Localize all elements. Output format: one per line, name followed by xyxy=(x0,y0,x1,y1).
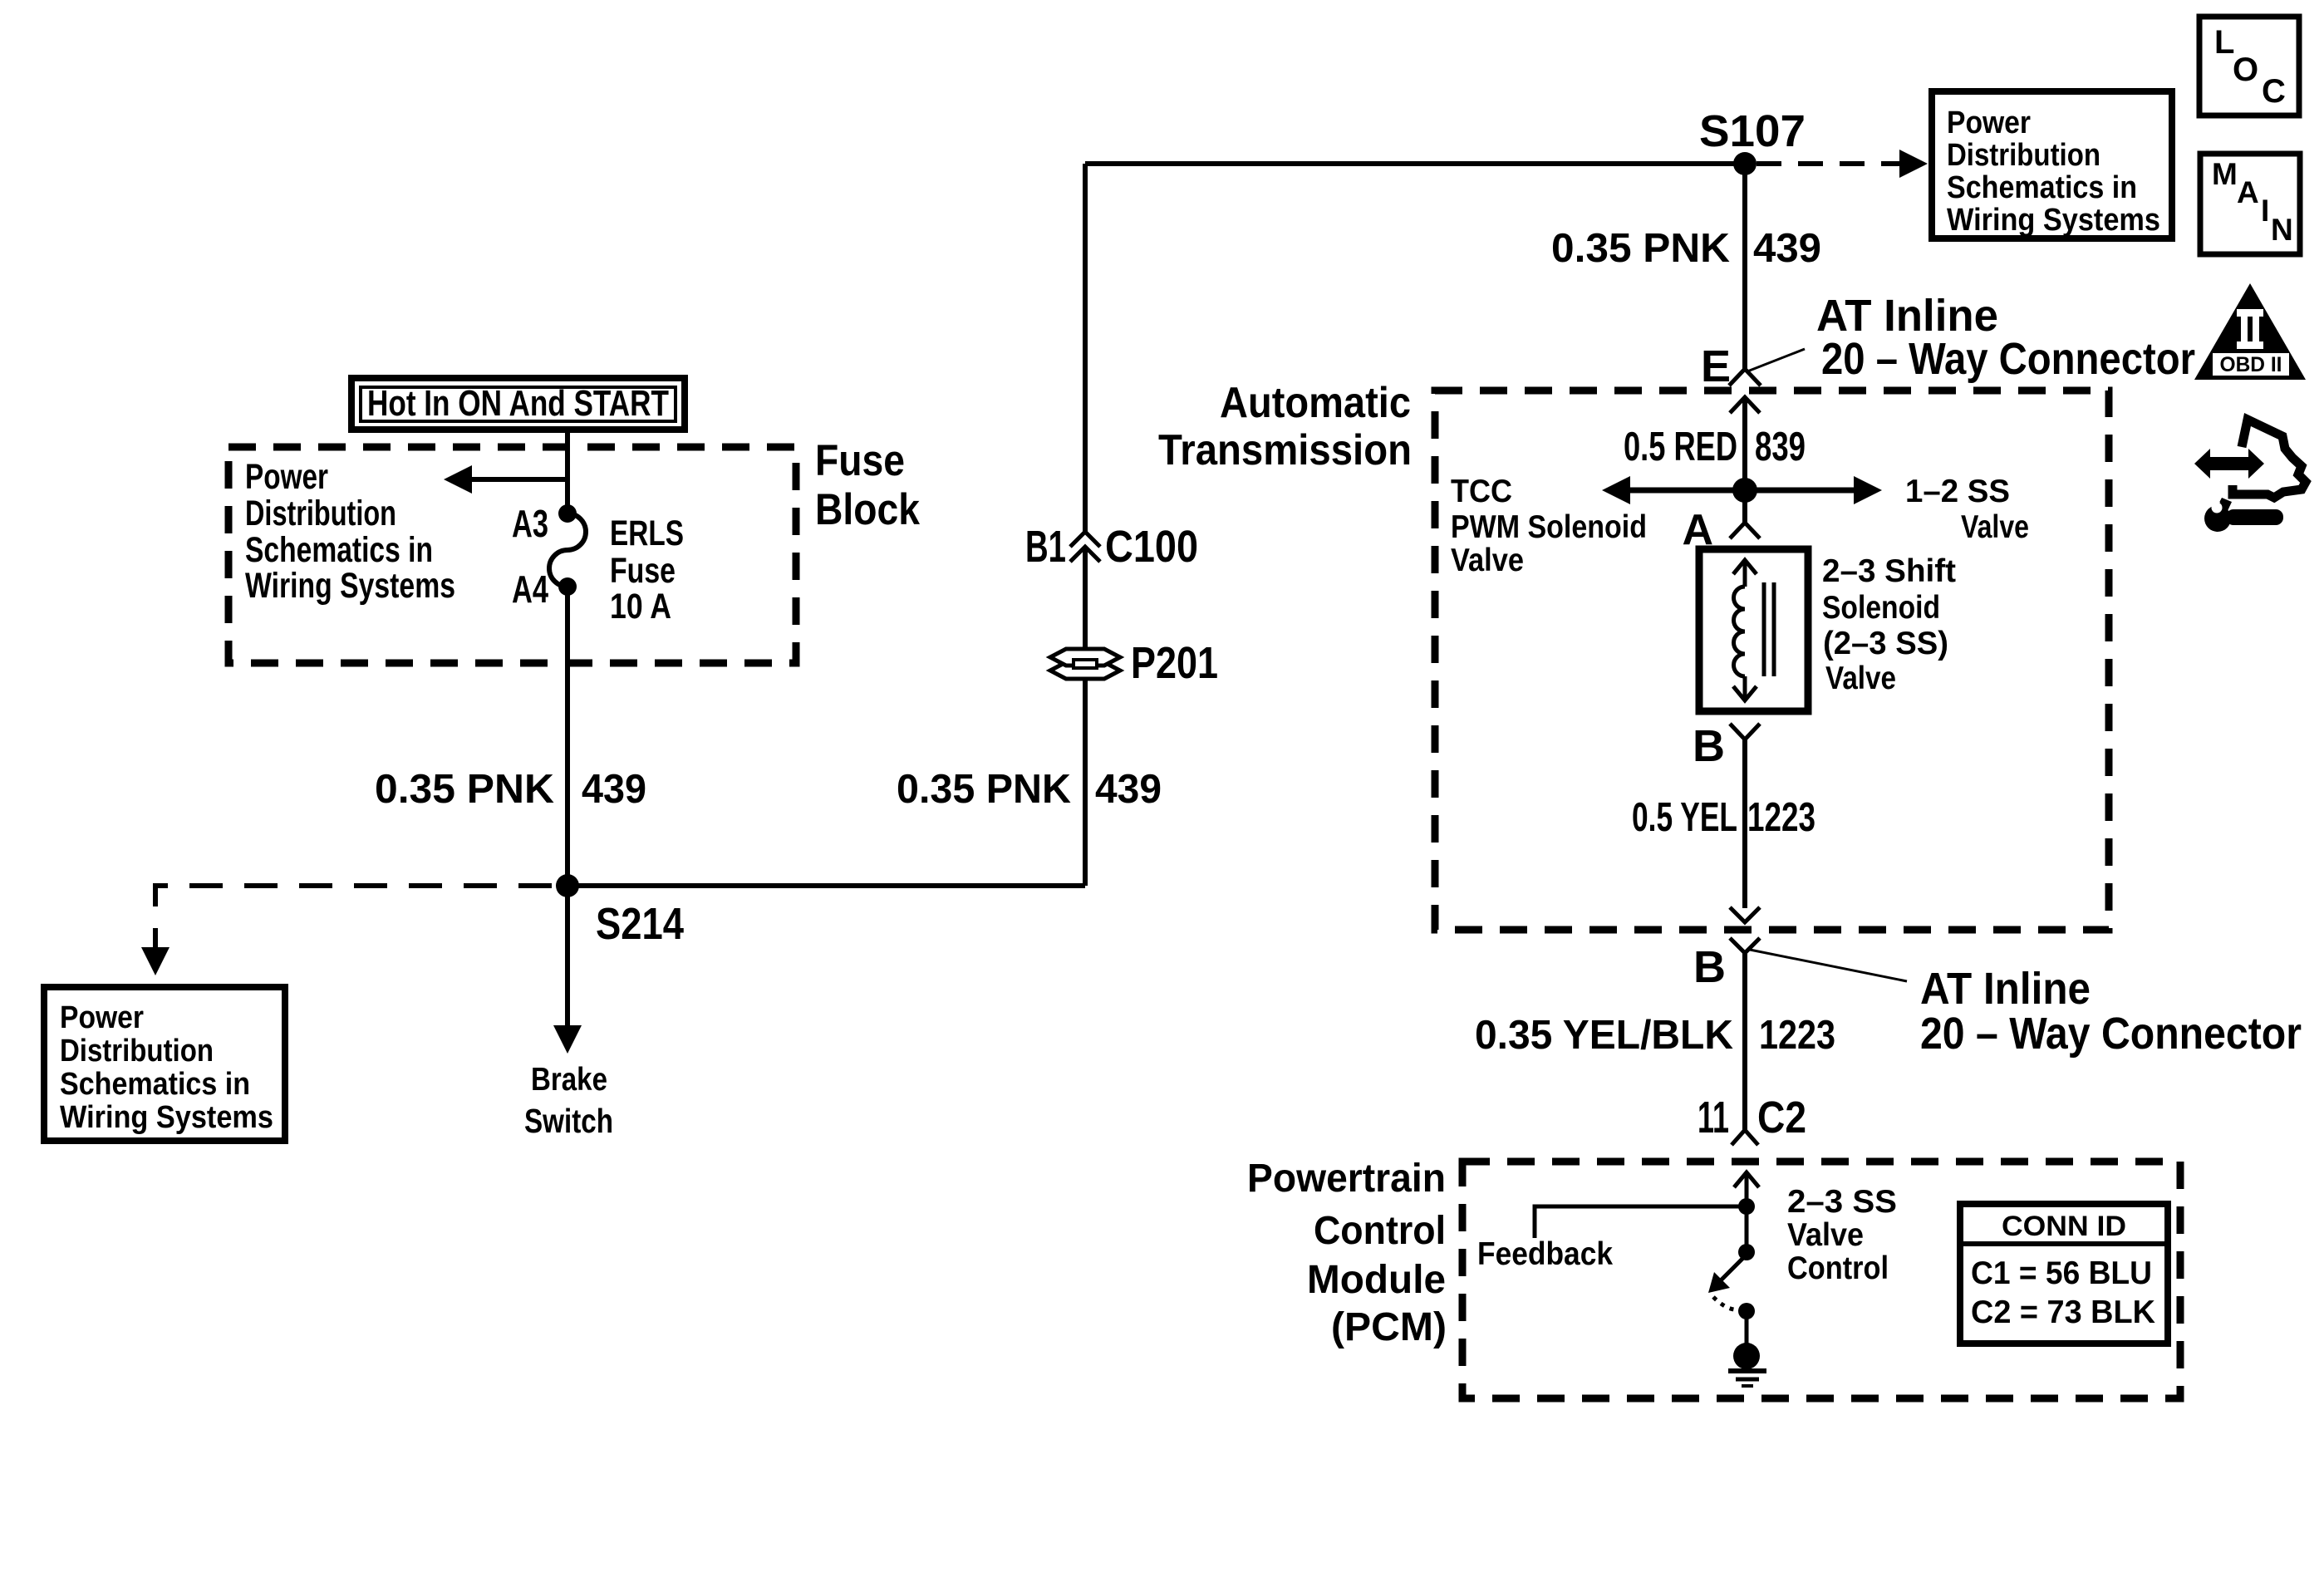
label: 1-2 SS Valve xyxy=(1905,474,2029,545)
svg-text:C2: C2 xyxy=(1757,1093,1806,1142)
svg-text:P201: P201 xyxy=(1131,638,1218,688)
wire: middle riser lower segment xyxy=(1083,547,1088,886)
svg-text:CONN ID: CONN ID xyxy=(2002,1211,2126,1242)
reference box: Power Distribution Schematics in Wiring Systems (top right) xyxy=(1932,91,2172,238)
svg-text:E: E xyxy=(1701,341,1731,391)
svg-text:Wiring Systems: Wiring Systems xyxy=(60,1100,273,1135)
label: AT Inline 20-Way Connector (top) xyxy=(1816,291,2195,384)
arrowhead down to reference box xyxy=(141,947,170,975)
connector pin B below solenoid xyxy=(1693,721,1760,771)
ground (PCM internal) xyxy=(1728,1343,1766,1386)
svg-text:Wiring Systems: Wiring Systems xyxy=(1947,203,2160,238)
wire: node down to pin A xyxy=(1742,490,1747,523)
svg-text:C1 = 56 BLU: C1 = 56 BLU xyxy=(1971,1255,2152,1291)
svg-text:Schematics in: Schematics in xyxy=(60,1067,250,1102)
wire: connector B down to PCM pin 11 xyxy=(1742,953,1747,1130)
svg-text:Solenoid: Solenoid xyxy=(1822,590,1940,626)
svg-text:Control: Control xyxy=(1787,1250,1889,1286)
svg-text:A: A xyxy=(2237,175,2259,209)
svg-text:Block: Block xyxy=(815,485,920,534)
svg-text:B: B xyxy=(1693,721,1725,771)
svg-text:Hot In ON And START: Hot In ON And START xyxy=(367,383,669,424)
label: 2-3 Shift Solenoid (2-3 SS) Valve xyxy=(1822,553,1956,696)
svg-text:ERLS: ERLS xyxy=(610,513,684,553)
wire label 0.35 PNK 439 (middle) xyxy=(897,767,1162,812)
arrowhead right xyxy=(1899,150,1928,178)
svg-text:(2–3 SS): (2–3 SS) xyxy=(1823,626,1948,661)
svg-text:20 – Way Connector: 20 – Way Connector xyxy=(1920,1009,2302,1059)
svg-text:OBD II: OBD II xyxy=(2220,353,2282,376)
branch arrows to TCC PWM solenoid valve and 1-2 SS valve xyxy=(1602,476,1882,504)
svg-text:Powertrain: Powertrain xyxy=(1247,1157,1446,1201)
svg-text:1223: 1223 xyxy=(1759,1013,1835,1058)
svg-text:PWM Solenoid: PWM Solenoid xyxy=(1451,509,1647,545)
svg-text:439: 439 xyxy=(1095,767,1162,812)
label: Automatic Transmission xyxy=(1158,379,1412,474)
wire: S107 down to connector E xyxy=(1742,164,1747,369)
switch blade arrow xyxy=(1708,1255,1747,1293)
dashed wire: S107 to power distribution reference (top right) xyxy=(1757,161,1901,166)
wire: solenoid B down to transmission case exit xyxy=(1742,739,1747,908)
inline connector C100 pin B1 xyxy=(1025,522,1198,572)
wire label 0.5 YEL 1223 xyxy=(1632,795,1815,840)
svg-text:A4: A4 xyxy=(512,567,548,611)
fuse ERLS 10 A element xyxy=(549,513,586,587)
svg-text:I: I xyxy=(2261,194,2269,228)
svg-text:Valve: Valve xyxy=(1825,661,1896,696)
svg-text:Wiring Systems: Wiring Systems xyxy=(245,566,455,606)
svg-text:Power: Power xyxy=(60,1000,144,1035)
connector pin E male arrow into transmission xyxy=(1730,397,1760,490)
svg-text:Valve: Valve xyxy=(1451,543,1524,578)
dashed wire: S214 to power distribution reference (left) xyxy=(155,886,552,947)
svg-text:839: 839 xyxy=(1755,425,1806,469)
label: 2-3 SS Valve Control xyxy=(1787,1184,1897,1286)
svg-text:A3: A3 xyxy=(512,502,548,545)
svg-text:10 A: 10 A xyxy=(610,587,671,626)
svg-text:11: 11 xyxy=(1698,1093,1729,1142)
svg-text:Feedback: Feedback xyxy=(1477,1236,1613,1272)
callout line to AT Inline label xyxy=(1747,349,1805,371)
wire: S214 down to brake switch (arrow) xyxy=(553,886,582,1054)
svg-text:C100: C100 xyxy=(1105,522,1198,572)
fuse block dashed box xyxy=(228,447,796,663)
svg-text:(PCM): (PCM) xyxy=(1331,1305,1447,1349)
node: valve control line xyxy=(1738,1198,1755,1215)
svg-text:439: 439 xyxy=(1753,226,1821,271)
fuse terminal A3 xyxy=(512,502,577,545)
CONN ID table xyxy=(1960,1204,2168,1344)
svg-text:S107: S107 xyxy=(1699,106,1806,156)
connector E (female half, AT inline 20-way) xyxy=(1701,341,1761,391)
solenoid coil symbol xyxy=(1733,560,1774,700)
svg-text:0.5 RED: 0.5 RED xyxy=(1624,425,1737,469)
wire: hot feed down into fuse block xyxy=(565,430,570,513)
service manual icon (arrows, outline, wrench) xyxy=(2194,420,2306,532)
svg-text:2–3 Shift: 2–3 Shift xyxy=(1822,553,1956,589)
connector pin 11 C2 xyxy=(1698,1093,1806,1145)
svg-text:N: N xyxy=(2271,213,2293,247)
label: Powertrain Control Module (PCM) xyxy=(1247,1157,1447,1349)
splice S214 xyxy=(556,874,684,949)
wire label 0.35 PNK 439 (left) xyxy=(375,767,646,812)
svg-text:Distribution: Distribution xyxy=(1947,138,2100,173)
switch upper contact xyxy=(1738,1206,1755,1260)
svg-text:L: L xyxy=(2214,24,2234,61)
wire label 0.35 YEL/BLK 1223 xyxy=(1475,1013,1835,1058)
svg-text:Power: Power xyxy=(1947,106,2031,140)
callout line to AT Inline label (bottom) xyxy=(1750,950,1907,981)
power feed label box "Hot In ON And START" xyxy=(351,378,685,430)
svg-text:0.35 PNK: 0.35 PNK xyxy=(897,767,1071,812)
svg-text:Control: Control xyxy=(1314,1209,1446,1253)
svg-text:AT Inline: AT Inline xyxy=(1816,291,1998,341)
svg-text:Schematics in: Schematics in xyxy=(245,530,433,570)
label: TCC PWM Solenoid Valve xyxy=(1451,474,1647,578)
pin 11 male arrow into PCM xyxy=(1734,1172,1759,1206)
OBD II triangle icon xyxy=(2194,283,2306,380)
svg-text:Distribution: Distribution xyxy=(60,1034,214,1069)
2-3 shift solenoid box xyxy=(1699,549,1808,711)
svg-text:Switch: Switch xyxy=(524,1102,613,1140)
junction node (solenoid feed splice) xyxy=(1732,478,1757,503)
male arrow at transmission exit xyxy=(1730,907,1760,922)
svg-text:0.35 PNK: 0.35 PNK xyxy=(375,767,554,812)
wire: top run to S107 xyxy=(1085,161,1745,166)
svg-text:0.35 PNK: 0.35 PNK xyxy=(1551,226,1730,271)
svg-text:Schematics in: Schematics in xyxy=(1947,170,2137,205)
LOC hotlink icon xyxy=(2199,17,2299,115)
connector pin A xyxy=(1682,506,1760,554)
svg-text:O: O xyxy=(2233,52,2258,88)
svg-text:Brake: Brake xyxy=(531,1062,607,1098)
svg-text:1–2 SS: 1–2 SS xyxy=(1905,474,2010,509)
wire label 0.35 PNK 439 (top) xyxy=(1551,226,1821,271)
powertrain control module dashed box xyxy=(1462,1162,2180,1398)
svg-text:Valve: Valve xyxy=(1787,1217,1864,1253)
svg-text:B: B xyxy=(1693,942,1726,992)
wire label 0.5 RED 839 xyxy=(1624,425,1806,469)
switch travel dotted arc xyxy=(1713,1297,1742,1309)
grommet P201 xyxy=(1050,638,1218,688)
connector B female (below transmission box) xyxy=(1693,938,1760,992)
switch lower contact xyxy=(1738,1303,1755,1344)
svg-text:20 – Way Connector: 20 – Way Connector xyxy=(1821,334,2195,384)
svg-text:Transmission: Transmission xyxy=(1158,426,1412,474)
wire: fuse output down to S214 xyxy=(565,587,570,886)
svg-text:AT Inline: AT Inline xyxy=(1920,964,2091,1014)
label: Fuse Block xyxy=(815,436,920,534)
svg-text:B1: B1 xyxy=(1025,522,1066,572)
wire: middle riser upper segment xyxy=(1083,164,1088,532)
label: ERLS Fuse 10 A xyxy=(610,513,684,626)
svg-text:C: C xyxy=(2262,73,2286,110)
automatic transmission dashed box xyxy=(1435,391,2109,930)
svg-text:Fuse: Fuse xyxy=(815,436,905,485)
svg-text:M: M xyxy=(2212,157,2238,191)
svg-text:TCC: TCC xyxy=(1451,474,1512,509)
svg-text:S214: S214 xyxy=(596,899,684,949)
svg-text:Distribution: Distribution xyxy=(245,494,396,533)
feedback tap xyxy=(1535,1206,1747,1238)
fuse terminal A4 xyxy=(512,567,577,611)
svg-text:Fuse: Fuse xyxy=(610,551,676,591)
note: Power Distribution Schematics in Wiring Systems (inside fuse block) xyxy=(245,457,455,606)
MAIN hotlink icon xyxy=(2200,154,2300,254)
wire: S214 to middle riser xyxy=(567,883,1085,888)
svg-text:Automatic: Automatic xyxy=(1220,379,1411,427)
svg-text:Valve: Valve xyxy=(1961,509,2029,545)
splice S107 xyxy=(1699,106,1806,175)
label: Brake Switch xyxy=(524,1062,613,1140)
svg-text:0.5 YEL: 0.5 YEL xyxy=(1632,795,1737,840)
svg-text:2–3 SS: 2–3 SS xyxy=(1787,1184,1897,1220)
svg-text:Module: Module xyxy=(1307,1258,1446,1302)
svg-text:439: 439 xyxy=(582,767,646,812)
svg-text:1223: 1223 xyxy=(1747,795,1815,840)
label: AT Inline 20-Way Connector (bottom) xyxy=(1920,964,2302,1059)
arrow branch to power distribution schematics xyxy=(444,465,567,494)
svg-text:0.35 YEL/BLK: 0.35 YEL/BLK xyxy=(1475,1013,1733,1058)
svg-text:C2 = 73 BLK: C2 = 73 BLK xyxy=(1971,1295,2155,1330)
svg-text:Power: Power xyxy=(245,457,328,497)
reference box: Power Distribution Schematics in Wiring Systems (bottom left) xyxy=(44,987,285,1141)
